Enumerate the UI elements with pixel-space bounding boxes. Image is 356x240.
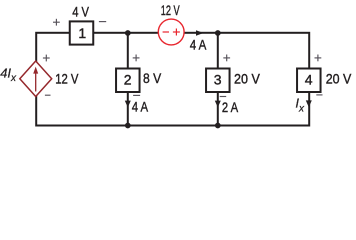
element box 1 xyxy=(70,21,94,44)
svg-text:20 V: 20 V xyxy=(326,70,352,86)
element box 4 xyxy=(297,69,321,93)
svg-text:4 V: 4 V xyxy=(72,4,89,20)
junction dot bottom-right xyxy=(215,123,221,129)
svg-text:Ix: Ix xyxy=(295,96,305,115)
minus sign box1 xyxy=(99,21,106,23)
current arrow below box2 xyxy=(125,101,131,108)
svg-text:4: 4 xyxy=(305,71,313,87)
current arrow below box3 xyxy=(215,101,221,108)
svg-text:4 A: 4 A xyxy=(190,37,207,53)
svg-text:2 A: 2 A xyxy=(222,99,239,115)
junction dot top-right xyxy=(215,30,221,36)
arrow inside diamond xyxy=(35,73,37,92)
element box 2 xyxy=(116,69,140,93)
svg-text:3: 3 xyxy=(214,71,222,87)
svg-text:20 V: 20 V xyxy=(234,70,260,86)
plus sign diamond xyxy=(43,55,50,62)
svg-text:12 V: 12 V xyxy=(55,70,79,86)
minus sign box2 xyxy=(133,94,140,96)
svg-text:12 V: 12 V xyxy=(161,2,180,18)
minus inside source xyxy=(163,31,169,33)
plus inside source xyxy=(173,31,180,33)
minus sign diamond xyxy=(45,94,51,96)
plus sign box2 xyxy=(133,55,140,62)
wire column node C xyxy=(217,33,219,126)
svg-text:8 V: 8 V xyxy=(143,70,162,86)
minus sign box3 xyxy=(220,96,227,98)
minus sign box4 xyxy=(316,94,322,96)
svg-text:2: 2 xyxy=(124,71,132,87)
current arrow below box4 (Ix) xyxy=(306,100,312,107)
plus sign box1 xyxy=(53,19,60,26)
junction dot top-left xyxy=(125,30,131,36)
svg-text:4 A: 4 A xyxy=(132,99,149,115)
dependent source 4Ix (diamond) xyxy=(20,61,52,97)
svg-text:1: 1 xyxy=(78,25,86,41)
outer loop wire xyxy=(36,33,309,126)
plus sign box3 xyxy=(223,55,230,62)
junction dot bottom-left xyxy=(125,123,131,129)
wire column node B xyxy=(127,33,129,126)
svg-text:4Ix: 4Ix xyxy=(0,66,17,85)
element box 3 xyxy=(206,69,230,93)
voltage source 12V (circle) xyxy=(158,19,184,45)
plus sign box4 xyxy=(315,55,322,62)
current arrow 4A on top wire xyxy=(196,30,204,35)
